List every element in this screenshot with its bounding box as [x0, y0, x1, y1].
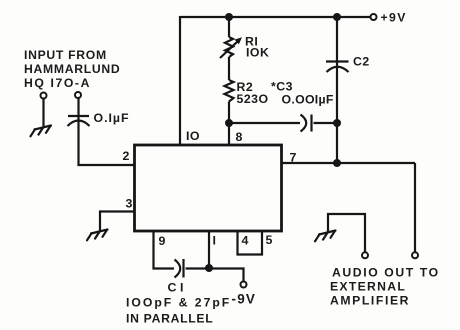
wire terminal to C4: [77, 98, 79, 116]
svg-text:AUDIO OUT TO: AUDIO OUT TO: [332, 266, 440, 280]
wire pin 9: [154, 231, 175, 269]
wire right rail upper: [336, 17, 338, 62]
terminal audio hot: [412, 252, 418, 258]
wire R2 to node: [228, 102, 230, 124]
wire C1 to node: [186, 267, 210, 269]
node junction pin7: [333, 159, 341, 167]
svg-text:IO: IO: [186, 129, 200, 143]
wire top to R1: [228, 17, 230, 37]
capacitor C1: [175, 259, 184, 278]
wire C3 to right rail: [314, 122, 338, 124]
svg-text:5: 5: [266, 233, 273, 247]
svg-text:7: 7: [290, 151, 297, 165]
svg-text:AMPLIFIER: AMPLIFIER: [330, 294, 410, 308]
terminal +9V: [371, 14, 377, 20]
svg-text:C2: C2: [353, 55, 370, 69]
wire pin 1: [208, 231, 210, 269]
svg-text:INPUT FROM: INPUT FROM: [24, 48, 107, 62]
svg-text:I: I: [213, 234, 217, 248]
terminal input ground: [41, 93, 47, 99]
svg-text:3: 3: [126, 197, 133, 211]
svg-text:4: 4: [242, 234, 249, 248]
wire cap down: [77, 117, 79, 166]
wire audio hot down: [414, 163, 416, 252]
ground audio: [315, 231, 336, 242]
ground pin 3: [87, 230, 108, 241]
wire pins 4-5 strap: [238, 231, 263, 255]
svg-text:523O: 523O: [237, 92, 269, 106]
resistor R2: [225, 80, 234, 102]
node junction top of C2: [333, 13, 341, 21]
wire right rail lower: [336, 63, 338, 164]
wire R1 to R2: [228, 57, 230, 80]
svg-text:IOK: IOK: [246, 46, 269, 60]
node junction pin1/C1/-9V: [205, 264, 213, 272]
svg-text:O.OOIµF: O.OOIµF: [282, 93, 334, 107]
node junction C3/right rail: [333, 119, 341, 127]
terminal -9V: [241, 282, 247, 288]
IC U1 body: [135, 145, 282, 231]
wire node to C3: [229, 122, 300, 124]
wire pin 3: [100, 212, 135, 232]
svg-text:8: 8: [236, 130, 243, 144]
svg-text:HQ I7O-A: HQ I7O-A: [24, 76, 91, 90]
svg-text:+9V: +9V: [381, 11, 407, 25]
svg-text:O.IµF: O.IµF: [94, 111, 130, 125]
potentiometer R1: [220, 37, 242, 58]
terminal input hot: [75, 92, 81, 98]
capacitor 0.1uF: [68, 116, 90, 126]
svg-text:IN PARALLEL: IN PARALLEL: [126, 312, 213, 326]
terminal audio return: [362, 252, 368, 258]
svg-text:2: 2: [123, 149, 130, 163]
wire pin 8: [228, 123, 230, 146]
wire pin 7: [282, 162, 416, 164]
svg-text:IOOpF & 27pF: IOOpF & 27pF: [126, 296, 231, 310]
node junction R2/C3/pin8: [225, 119, 233, 127]
svg-text:-9V: -9V: [232, 292, 257, 307]
wire node to -9V: [209, 269, 244, 282]
svg-text:*C3: *C3: [271, 80, 293, 94]
wire top rail: [180, 16, 370, 18]
svg-text:CI: CI: [168, 281, 187, 295]
svg-text:HAMMARLUND: HAMMARLUND: [24, 62, 120, 76]
wire terminal to ground: [42, 99, 44, 128]
wire to pin 2: [78, 164, 135, 166]
svg-text:EXTERNAL: EXTERNAL: [330, 280, 406, 294]
capacitor C3: [301, 115, 312, 132]
audio return bracket: [328, 214, 365, 252]
svg-text:9: 9: [159, 234, 166, 248]
capacitor C2: [326, 62, 349, 73]
wire pin 10 vertical: [179, 16, 181, 146]
node junction top of R1: [225, 13, 233, 21]
ground input: [31, 126, 52, 137]
